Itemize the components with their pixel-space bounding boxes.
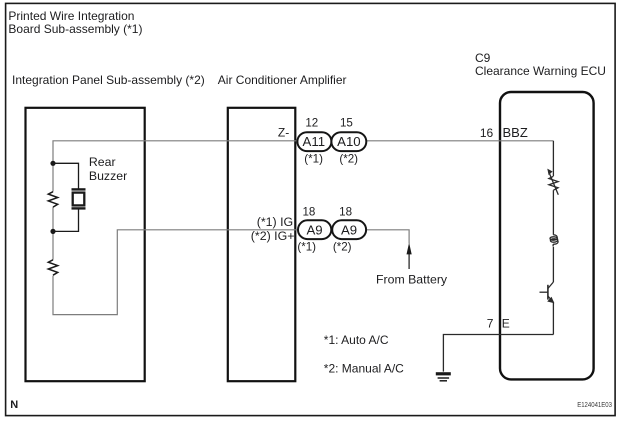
svg-text:A11: A11 bbox=[303, 134, 326, 149]
variable resistor inside ECU bbox=[549, 174, 558, 195]
connector oval A11 bbox=[297, 132, 331, 151]
svg-text:(*1) IG: (*1) IG bbox=[257, 215, 294, 229]
wire: buzzer branch bbox=[53, 163, 79, 189]
transistor Q (NPN) inside ECU bbox=[540, 282, 554, 302]
svg-text:E: E bbox=[502, 316, 510, 330]
box: Clearance Warning ECU (rounded) bbox=[500, 92, 594, 379]
svg-text:15: 15 bbox=[340, 117, 353, 130]
svg-text:C9: C9 bbox=[475, 51, 491, 65]
wire: IG net from resistor bottom through boxes to A9 (gray) bbox=[53, 230, 366, 315]
svg-text:*1: Auto A/C: *1: Auto A/C bbox=[324, 333, 389, 347]
connector oval A9 (*1) bbox=[298, 220, 331, 239]
svg-text:Clearance Warning ECU: Clearance Warning ECU bbox=[475, 64, 606, 78]
svg-text:7: 7 bbox=[487, 316, 494, 330]
svg-text:A10: A10 bbox=[337, 134, 360, 149]
wire: transistor emitter down to E pin wire bbox=[552, 302, 554, 334]
wire: Z- net from left branch to ECU pin 16 (gray) bbox=[53, 141, 553, 164]
svg-text:BBZ: BBZ bbox=[503, 125, 528, 140]
wire: left branch between junction dots (gray) bbox=[52, 163, 54, 191]
wire: from A9 (*2) to battery arrow corner (gray) bbox=[366, 230, 409, 244]
svg-text:Board Sub-assembly (*1): Board Sub-assembly (*1) bbox=[8, 22, 142, 36]
buzzer (piezo) symbol bbox=[72, 189, 86, 208]
svg-text:(*2): (*2) bbox=[339, 152, 358, 165]
svg-text:(*2): (*2) bbox=[333, 241, 352, 254]
wire: variable resistor to coil bbox=[552, 190, 554, 235]
battery arrow (points up to IG wire) bbox=[407, 243, 412, 269]
svg-text:12: 12 bbox=[305, 117, 318, 130]
svg-text:*2: Manual A/C: *2: Manual A/C bbox=[324, 362, 404, 376]
svg-text:(*2) IG+: (*2) IG+ bbox=[251, 229, 295, 243]
svg-text:A9: A9 bbox=[341, 222, 357, 237]
connector oval A10 bbox=[331, 132, 366, 151]
ground symbol bbox=[436, 374, 451, 381]
svg-text:18: 18 bbox=[302, 206, 315, 219]
svg-text:From Battery: From Battery bbox=[376, 273, 448, 287]
svg-text:E124041E03: E124041E03 bbox=[577, 400, 612, 409]
svg-text:16: 16 bbox=[480, 126, 494, 140]
resistor R2 (lower left branch) bbox=[48, 260, 57, 275]
box: Integration Panel Sub-assembly bbox=[26, 108, 145, 381]
wire: coil to transistor bbox=[552, 247, 554, 282]
svg-text:(*1): (*1) bbox=[297, 241, 316, 254]
svg-text:Printed Wire Integration: Printed Wire Integration bbox=[8, 9, 134, 23]
svg-text:Buzzer: Buzzer bbox=[89, 169, 127, 183]
wire: ground net (E pin to ground) bbox=[443, 335, 553, 372]
label: C9 Clearance Warning ECU bbox=[475, 51, 606, 78]
coil inside ECU bbox=[550, 235, 558, 247]
svg-text:Integration Panel Sub-assembly: Integration Panel Sub-assembly (*2) bbox=[12, 73, 205, 87]
labels: (*1) IG / (*2) IG+ bbox=[251, 215, 295, 243]
svg-text:Air Conditioner Amplifier: Air Conditioner Amplifier bbox=[218, 73, 347, 87]
label: Printed Wire Integration Board Sub-assembly (*1) bbox=[8, 9, 142, 36]
svg-text:N: N bbox=[10, 399, 18, 411]
svg-text:18: 18 bbox=[339, 206, 352, 219]
svg-text:Rear: Rear bbox=[89, 155, 116, 169]
svg-text:A9: A9 bbox=[307, 222, 323, 237]
wire: ECU internal vertical (BBZ to variable resistor) bbox=[552, 141, 554, 176]
svg-text:(*1): (*1) bbox=[304, 152, 323, 165]
box: Air Conditioner Amplifier bbox=[228, 108, 295, 381]
label: Rear Buzzer bbox=[89, 155, 127, 183]
junction dot (bottom) bbox=[50, 229, 55, 234]
svg-text:Z-: Z- bbox=[278, 126, 289, 140]
connector oval A9 (*2) bbox=[332, 220, 366, 239]
junction dot (top) bbox=[50, 161, 55, 166]
resistor R1 (upper left branch) bbox=[48, 192, 57, 207]
